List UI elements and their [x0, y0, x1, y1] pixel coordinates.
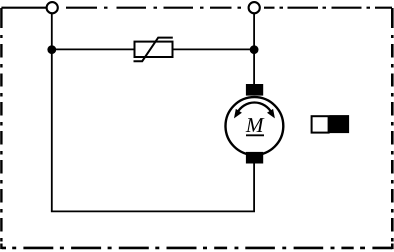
wire from terminal 1 down through junction to bottom run [51, 14, 53, 212]
wire main horizontal run junction to junction [52, 48, 254, 50]
thermistor diagonal stroke [134, 38, 173, 62]
junction node left [47, 45, 56, 54]
motor M1 body circle [226, 97, 284, 155]
indicator icon white half [312, 116, 329, 132]
wire bottom run and riser to motor bottom brush [51, 152, 254, 211]
motor bottom brush [246, 152, 263, 164]
motor arrowhead right [267, 109, 275, 119]
motor top brush [246, 84, 263, 96]
wire from terminal 2 down through junction to motor top brush [253, 14, 255, 95]
motor arrowhead left [234, 109, 242, 119]
thermistor R body [135, 42, 173, 57]
motor rotation arc [237, 102, 272, 113]
motor letter underline [246, 134, 264, 136]
junction node right [250, 45, 259, 54]
terminal circle 1 [47, 2, 58, 13]
motor letter M [246, 118, 265, 132]
terminal circle 2 [249, 2, 260, 13]
indicator icon black half [330, 115, 350, 133]
